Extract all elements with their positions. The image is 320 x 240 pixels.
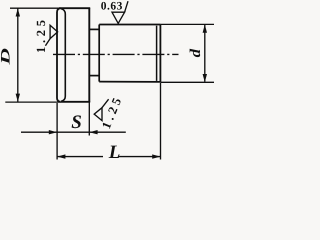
wire top extension line D: [10, 7, 60, 9]
arrow S right (points left, tip at right ext): [89, 130, 97, 134]
dimension L right extension: [160, 83, 162, 160]
roughness symbol 1.25 left tail: [45, 39, 50, 46]
dimension S left extension (shared with L): [56, 103, 58, 160]
head bottom edge: [62, 101, 90, 103]
arrow L right (points right): [152, 154, 160, 158]
head top edge: [59, 7, 90, 9]
roughness symbol 0.63 triangle: [112, 12, 125, 23]
svg-text:d: d: [188, 48, 204, 57]
svg-text:D: D: [0, 47, 13, 66]
svg-text:L: L: [108, 142, 121, 163]
roughness symbol 0.63 tail: [125, 1, 128, 12]
centerline: [53, 53, 179, 55]
shaft bottom edge: [99, 81, 160, 83]
head inner tangent line: [61, 9, 65, 102]
dimension S line: [21, 131, 126, 133]
roughness symbol 1.25 left triangle: [50, 25, 58, 38]
arrow d top: [203, 24, 207, 32]
arrow D bottom: [16, 94, 20, 102]
dimension L line left segment: [57, 156, 103, 158]
head left edge with rounded corners: [57, 8, 61, 102]
dimension D line: [17, 8, 19, 102]
svg-text:S: S: [71, 112, 82, 133]
svg-text:1.25: 1.25: [34, 20, 48, 53]
groove bottom edge: [89, 75, 99, 77]
groove top edge: [89, 28, 99, 30]
arrow S left (points right, tip at left ext): [49, 130, 57, 134]
arrow L left (points left): [57, 154, 65, 158]
head right edge: [88, 8, 90, 102]
dimension d line: [204, 25, 206, 82]
wire bottom extension line D: [5, 101, 62, 103]
roughness symbol 1.25 lower tail: [102, 99, 109, 108]
dimension d bottom extension: [160, 81, 214, 83]
shaft end face: [159, 25, 161, 82]
dimension d top extension: [160, 23, 214, 25]
roughness symbol 1.25 lower triangle: [94, 108, 102, 121]
dimension L line right segment: [118, 156, 161, 158]
shaft top edge: [99, 24, 160, 26]
svg-text:0.63: 0.63: [101, 1, 123, 13]
shaft chamfer line: [156, 26, 158, 81]
arrow D top: [16, 8, 20, 16]
dimension S right extension: [88, 103, 90, 136]
step face: [98, 25, 100, 82]
arrow d bottom: [203, 74, 207, 82]
